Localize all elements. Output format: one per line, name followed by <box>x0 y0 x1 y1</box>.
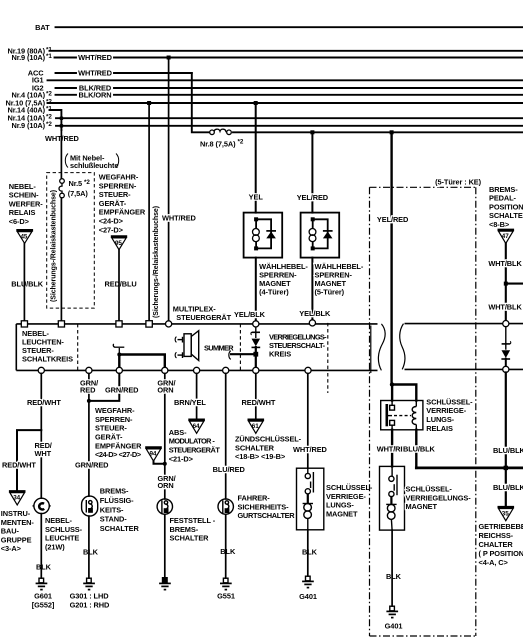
svg-text:GRN/RED: GRN/RED <box>75 460 109 469</box>
wire Nr.4 bus <box>56 94 77 96</box>
svg-text:SPERREN-: SPERREN- <box>99 181 137 190</box>
svg-text:47: 47 <box>502 233 509 240</box>
svg-text:STEUER-: STEUER- <box>95 424 127 433</box>
svg-text:MODULATOR -: MODULATOR - <box>169 437 216 446</box>
svg-text:SCHLUSS-: SCHLUSS- <box>45 525 83 534</box>
svg-text:VERRIEGE-: VERRIEGE- <box>326 492 366 501</box>
svg-text:(4-Türer): (4-Türer) <box>259 288 289 297</box>
svg-text:CHALTER: CHALTER <box>479 540 514 549</box>
svg-text:(7,5A): (7,5A) <box>68 189 89 198</box>
wire ACC <box>56 72 77 74</box>
wire branch to triangle 94 <box>154 461 165 464</box>
svg-text:VERRIEGELUNGS-: VERRIEGELUNGS- <box>406 493 472 502</box>
dashed fuse box (Sicherungs-/Relaiskastenbuchse) <box>47 173 95 309</box>
svg-text:INSTRU-: INSTRU- <box>1 509 31 518</box>
svg-text:G201 : RHD: G201 : RHD <box>70 601 110 610</box>
svg-text:SCHALTER: SCHALTER <box>489 211 523 220</box>
diode column inside box1 <box>229 326 260 370</box>
svg-text:SCHLÜSSEL-: SCHLÜSSEL- <box>326 483 373 492</box>
wire BAT bus <box>56 26 523 28</box>
svg-text:95: 95 <box>115 240 122 247</box>
svg-text:*1: *1 <box>46 53 52 60</box>
magnet box 2 (WAEHLHEBEL-SPERREN-MAGNET 5-Tuerer) <box>301 213 340 258</box>
wire brake pedal branch right <box>506 283 523 285</box>
svg-text:KEITS-: KEITS- <box>100 505 124 514</box>
T-tap symbol on U-jumper <box>113 344 124 355</box>
svg-text:ZÜNDSCHLÜSSEL-: ZÜNDSCHLÜSSEL- <box>235 435 302 444</box>
buzzer SUMMER <box>175 331 199 361</box>
svg-text:VERRIEGE-: VERRIEGE- <box>426 406 466 415</box>
wire key magnet2 to ground <box>391 530 393 606</box>
svg-text:BLU/RED: BLU/RED <box>213 465 246 474</box>
diode magnet2 <box>323 231 333 239</box>
svg-text:GETRIEBEBE: GETRIEBEBE <box>479 522 523 531</box>
svg-text:SICHERHEITS-: SICHERHEITS- <box>238 502 290 511</box>
svg-text:POSITIONS-: POSITIONS- <box>489 202 523 211</box>
svg-text:YEL/BLK: YEL/BLK <box>234 310 266 319</box>
svg-text:*2: *2 <box>46 121 52 128</box>
svg-text:YEL: YEL <box>249 193 264 202</box>
wire BRN/YEL <box>196 374 198 420</box>
svg-text:<6-D>: <6-D> <box>9 217 30 226</box>
lower wires <box>17 373 506 607</box>
svg-text:YEL/BLK: YEL/BLK <box>299 309 331 318</box>
svg-text:EMPFÄNGER: EMPFÄNGER <box>99 208 146 217</box>
svg-text:*2: *2 <box>46 90 52 97</box>
triangle connector 45 (NEBEL-SCHEINWERFER-RELAIS) <box>16 230 33 243</box>
svg-text:G301 : LHD: G301 : LHD <box>70 592 110 601</box>
svg-text:WHT: WHT <box>35 449 52 458</box>
ground G551 <box>220 578 232 589</box>
triangle connector 35 (GETRIEBE) <box>498 507 515 521</box>
svg-text:BREMS-: BREMS- <box>170 525 199 534</box>
triangle connector 64 (ABS) <box>188 420 205 434</box>
svg-text:BLK: BLK <box>302 548 318 557</box>
svg-text:REICHSS-: REICHSS- <box>479 531 514 540</box>
control circuit box 2 (right, torn left edge) <box>400 324 523 370</box>
wire BLU/BLK horizontal <box>416 467 523 470</box>
fuse Nr.8 <box>210 129 232 134</box>
svg-text:(5-Türer : KE): (5-Türer : KE) <box>435 178 481 187</box>
ground G301 <box>83 578 95 589</box>
wire YEL drop <box>255 103 257 213</box>
control circuit box 1 (NEBEL-LEUCHTEN / VERRIEGELUNGS) <box>16 324 385 371</box>
wire BLU/BLK relay drop <box>23 243 25 321</box>
svg-text:*2: *2 <box>46 114 52 121</box>
svg-text:WHT/BLK: WHT/BLK <box>488 302 522 311</box>
fluid level switch (stadium) <box>82 496 98 516</box>
ground G401 (5-door) <box>386 606 398 617</box>
svg-text:BLU/BLK: BLU/BLK <box>403 444 435 453</box>
svg-text:FLÜSSIG-: FLÜSSIG- <box>100 496 134 505</box>
wire WHT/RED left vertical <box>60 130 62 179</box>
wire RED/WHT bulb column <box>40 374 42 499</box>
svg-text:G601: G601 <box>34 592 52 601</box>
svg-text:*2: *2 <box>46 99 52 106</box>
svg-text:BREMS-: BREMS- <box>489 185 518 194</box>
svg-text:BLU/BLK: BLU/BLK <box>493 483 523 492</box>
svg-text:MAGNET: MAGNET <box>406 502 438 511</box>
svg-text:(5-Türer): (5-Türer) <box>315 288 345 297</box>
junction dots on buses <box>60 56 508 286</box>
wire RED/WHT branch left <box>17 430 41 491</box>
svg-text:<8-B>: <8-B> <box>489 220 510 229</box>
svg-text:WHT/RED: WHT/RED <box>78 53 113 62</box>
bulb NEBEL-SCHLUSSLEUCHTE <box>33 498 51 513</box>
svg-text:PEDAL-: PEDAL- <box>489 194 517 203</box>
wire WHT/RED key magnet1 <box>307 374 309 469</box>
torn right edge of box1 <box>378 324 385 371</box>
triangle connector 34 (INSTRUMENTE) <box>9 491 26 505</box>
diode magnet1 <box>266 231 276 239</box>
svg-text:RED/WHT: RED/WHT <box>27 398 61 407</box>
ground G601 <box>36 578 48 589</box>
key magnet box 2 (5-door) <box>380 466 405 530</box>
wire Nr.10 drop to multiplex <box>148 103 150 320</box>
svg-text:BAT: BAT <box>35 23 50 32</box>
wire fluid switch to ground <box>88 516 90 578</box>
triangle connector 94 (WEGFAHR below) <box>145 448 162 462</box>
dashed divider inside box1 right <box>327 323 329 371</box>
svg-text:Nr.9 (10A): Nr.9 (10A) <box>11 121 45 130</box>
svg-text:BAU-: BAU- <box>1 527 20 536</box>
svg-text:RED/WHT: RED/WHT <box>2 460 36 469</box>
svg-text:64: 64 <box>193 423 200 430</box>
svg-text:WHT/RED: WHT/RED <box>162 214 197 223</box>
svg-text:SCHALTKREIS: SCHALTKREIS <box>22 355 73 364</box>
svg-text:RED: RED <box>80 386 96 395</box>
wire GRN/RED branch <box>89 374 119 401</box>
svg-text:KREIS: KREIS <box>269 350 291 359</box>
svg-text:*2: *2 <box>84 179 90 186</box>
coil magnet2 <box>309 229 316 242</box>
svg-text:STEUERGERÄT: STEUERGERÄT <box>169 446 221 455</box>
svg-text:STEUERGERÄT: STEUERGERÄT <box>176 313 231 322</box>
wire Nr.9 *2 bus <box>56 125 523 127</box>
terminals on box1 bottom edge <box>38 366 509 373</box>
svg-text:YEL/RED: YEL/RED <box>377 215 409 224</box>
svg-text:<21-D>: <21-D> <box>169 454 194 463</box>
svg-text:G551: G551 <box>217 592 235 601</box>
svg-text:BRN/YEL: BRN/YEL <box>174 398 206 407</box>
wire RED/BLU drop <box>118 250 120 321</box>
seat belt switch FAHRER <box>218 499 233 514</box>
wire RED/WHT zuend <box>255 374 257 420</box>
wire relay coil down <box>415 430 417 468</box>
svg-text:94: 94 <box>150 451 157 458</box>
svg-text:G401: G401 <box>385 622 403 631</box>
svg-text:MENTEN-: MENTEN- <box>1 518 35 527</box>
svg-text:YEL/RED: YEL/RED <box>297 193 329 202</box>
svg-text:GERÄT-: GERÄT- <box>95 433 123 442</box>
svg-text:BLK: BLK <box>83 548 99 557</box>
thick relay wiring <box>392 385 523 468</box>
svg-text:WHT/RED: WHT/RED <box>78 69 113 78</box>
svg-text:SCHEIN-: SCHEIN- <box>9 191 39 200</box>
svg-text:LEUCHTE: LEUCHTE <box>45 534 79 543</box>
svg-text:SPERREN-: SPERREN- <box>95 415 133 424</box>
svg-text:WEGFAHR-: WEGFAHR- <box>95 406 135 415</box>
wire ACC vertical to fuse line <box>192 73 209 132</box>
svg-text:GRN/RED: GRN/RED <box>105 385 139 394</box>
wire WHT/RED fuse output line <box>233 131 523 133</box>
svg-text:NEBEL-: NEBEL- <box>45 516 73 525</box>
svg-text:BREMS-: BREMS- <box>100 487 129 496</box>
svg-text:SCHLÜSSEL-: SCHLÜSSEL- <box>426 397 473 406</box>
wire feststell to ground <box>164 514 166 577</box>
svg-text:[G552]: [G552] <box>32 601 55 610</box>
svg-text:MAGNET: MAGNET <box>326 509 358 518</box>
coil magnet1 <box>253 229 260 242</box>
svg-text:BLU/BLK: BLU/BLK <box>493 446 523 455</box>
svg-text:SCHALTER: SCHALTER <box>235 443 275 452</box>
svg-text:LUNGS-: LUNGS- <box>326 501 354 510</box>
wire WHT/RED drop from Nr.9 <box>168 58 170 322</box>
svg-text:LUNGS-: LUNGS- <box>426 415 454 424</box>
svg-text:STEUER-: STEUER- <box>99 190 131 199</box>
wire GRN/ORN feststell column <box>164 374 166 499</box>
wire BLU/RED fahrer <box>225 374 227 499</box>
wire YEL/RED long drop <box>390 132 392 384</box>
svg-text:<27-D>: <27-D> <box>99 225 124 234</box>
svg-text:GERÄT-: GERÄT- <box>99 199 127 208</box>
svg-text:RED/WHT: RED/WHT <box>242 398 276 407</box>
U-jumper inside box1 <box>119 355 165 371</box>
svg-text:GRUPPE: GRUPPE <box>1 535 32 544</box>
triangle connector 61 (ZUENDSCHLUESSEL) <box>248 420 265 434</box>
wire Nr.9 *1 bus <box>55 57 77 59</box>
svg-text:RELAIS: RELAIS <box>426 424 453 433</box>
wire YEL/RED drop <box>311 132 313 212</box>
svg-text:Nr.9 (10A): Nr.9 (10A) <box>11 53 45 62</box>
magnet box 1 (WAEHLHEBEL-SPERREN-MAGNET 4-Tuerer) <box>244 213 283 258</box>
svg-text:FESTSTELL -: FESTSTELL - <box>170 516 216 525</box>
svg-text:SCHALTER: SCHALTER <box>100 524 140 533</box>
terminals on box1 top edge <box>21 320 509 327</box>
svg-text:G401: G401 <box>299 592 317 601</box>
wire Nr.10 bus <box>48 102 523 104</box>
svg-text:STAND-: STAND- <box>100 515 127 524</box>
fuse Nr.5 <box>59 179 64 198</box>
svg-text:EMPFÄNGER: EMPFÄNGER <box>95 441 142 450</box>
svg-text:BLK: BLK <box>220 547 236 556</box>
wire GRN/RED column <box>88 374 90 497</box>
svg-text:Nr.5: Nr.5 <box>69 179 83 188</box>
svg-text:ORN: ORN <box>157 386 173 395</box>
svg-text:FAHRER-: FAHRER- <box>238 494 271 503</box>
svg-text:WHT/RED: WHT/RED <box>45 134 80 143</box>
wire fahrer to ground <box>225 514 227 578</box>
svg-text:WHT/BLK: WHT/BLK <box>488 259 522 268</box>
triangle connector 47 (BREMS-PEDAL) <box>498 230 515 244</box>
svg-text:(Sicherungs-/Relaiskastenbuchs: (Sicherungs-/Relaiskastenbuchse) <box>51 190 58 302</box>
svg-text:BLK: BLK <box>36 562 52 571</box>
svg-text:BLK/ORN: BLK/ORN <box>79 90 112 99</box>
svg-text:*1: *1 <box>46 106 52 113</box>
svg-text:<24-D>: <24-D> <box>99 217 124 226</box>
dashed divider inside box1 left <box>77 324 79 371</box>
wire IG1 bus <box>48 79 523 81</box>
svg-text:(21W): (21W) <box>45 542 65 551</box>
relay box SCHLUESSEL-VERRIEGELUNGS-RELAIS <box>381 401 423 430</box>
svg-text:WEGFAHR-: WEGFAHR- <box>99 173 139 182</box>
wire BLU/BLK to triangle35 <box>505 373 507 507</box>
svg-text:34: 34 <box>13 495 20 502</box>
ground G401 (4-door) <box>302 576 314 587</box>
ground feststell (solid) <box>159 578 171 590</box>
wire YEL/BLK magnet2 down <box>311 258 313 321</box>
svg-text:RED/BLU: RED/BLU <box>105 280 137 289</box>
wire IG2 bus <box>56 87 77 89</box>
svg-text:<24-D> <27-D>: <24-D> <27-D> <box>95 450 142 459</box>
svg-text:61: 61 <box>252 423 259 430</box>
diode column inside box2 <box>501 327 510 367</box>
svg-text:WERFER-: WERFER- <box>9 199 43 208</box>
svg-text:NEBEL-: NEBEL- <box>9 182 37 191</box>
wire Nr.14 40A stub <box>50 110 62 130</box>
svg-text:45: 45 <box>21 234 28 241</box>
triangle connector 95 (WEGFAHR) <box>111 237 127 250</box>
wire relay to magnet2 <box>391 430 393 467</box>
svg-text:RELAIS: RELAIS <box>9 208 36 217</box>
wire Nr.19 bus <box>50 50 523 52</box>
svg-text:35: 35 <box>502 510 509 517</box>
wire WHT/BLK brake pedal <box>505 243 507 320</box>
dash-dot box (5-Tuerer : KE) <box>370 187 476 636</box>
wire key magnet1 to ground <box>307 530 309 576</box>
5-Tuerer box edge solid segment through band <box>370 326 372 374</box>
svg-text:( P POSITION: ( P POSITION <box>479 549 523 558</box>
key magnet box 1 (4-door) <box>297 468 324 530</box>
svg-text:<3-A>: <3-A> <box>1 544 22 553</box>
svg-text:BLK: BLK <box>386 572 402 581</box>
wire bulb to ground <box>40 514 42 578</box>
wire YEL/BLK magnet1 down <box>255 258 257 322</box>
svg-text:(Sicherungs-/Relaiskastenbuchs: (Sicherungs-/Relaiskastenbuchse) <box>153 206 160 318</box>
svg-text:ORN: ORN <box>158 481 174 490</box>
svg-text:GURTSCHALTER: GURTSCHALTER <box>238 511 296 520</box>
svg-text:SUMMER: SUMMER <box>204 343 234 352</box>
wire relay feed branch <box>392 385 417 401</box>
svg-text:<4-A, C>: <4-A, C> <box>479 558 509 567</box>
wire Nr.14 10A bus <box>56 117 523 119</box>
svg-text:WHT/RED: WHT/RED <box>293 445 328 454</box>
svg-text:SCHLÜSSEL-: SCHLÜSSEL- <box>406 485 453 494</box>
svg-text:Nr.8 (7,5A): Nr.8 (7,5A) <box>200 139 236 148</box>
svg-text:<18-B> <19-B>: <18-B> <19-B> <box>235 452 286 461</box>
parking brake switch FESTSTELL <box>157 499 172 514</box>
svg-text:schlußleuchte: schlußleuchte <box>70 161 118 170</box>
dashed divider inside box1 middle <box>239 324 241 371</box>
svg-text:BLU/BLK: BLU/BLK <box>11 280 43 289</box>
svg-text:ABS-: ABS- <box>169 428 187 437</box>
svg-text:*2: *2 <box>238 138 244 145</box>
svg-text:SCHALTER: SCHALTER <box>170 534 210 543</box>
